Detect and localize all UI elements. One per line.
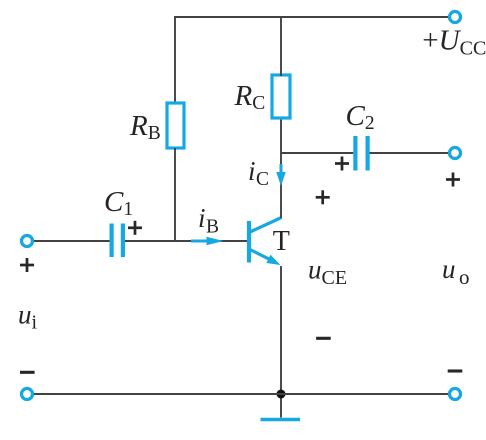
wire C1 to base: [125, 240, 247, 242]
label iB: [198, 203, 219, 238]
svg-text:iB: iB: [198, 203, 219, 238]
minus below uce: [316, 337, 331, 340]
plus after C1: [128, 221, 142, 235]
plus below output terminal: [446, 173, 460, 187]
label ui: [18, 300, 38, 334]
resistor RC: [272, 75, 290, 118]
svg-text:uo: uo: [442, 254, 470, 289]
input terminal bottom: [22, 389, 33, 400]
label iC: [248, 156, 269, 190]
svg-text:iC: iC: [248, 156, 269, 190]
capacitor C2: [355, 136, 367, 171]
capacitor C1: [112, 224, 123, 258]
svg-text:C1: C1: [104, 186, 133, 220]
power terminal +Ucc: [450, 12, 461, 23]
resistor RB: [167, 103, 184, 148]
svg-text:RC: RC: [234, 80, 266, 114]
transistor collector lead: [250, 218, 282, 233]
label T: [273, 226, 290, 257]
label C2: [346, 100, 375, 134]
output terminal bottom: [450, 389, 461, 400]
minus above bottom output terminal: [448, 369, 463, 372]
ground bar: [261, 418, 301, 422]
plus before C2: [335, 157, 349, 171]
wire RB branch upper: [174, 16, 176, 104]
wire collector vertical: [280, 118, 282, 218]
svg-text:ui: ui: [18, 300, 38, 334]
ground stem: [280, 394, 282, 418]
label C1: [104, 186, 133, 220]
svg-text:C2: C2: [346, 100, 375, 134]
wire C2 branch left: [281, 152, 353, 154]
input terminal top: [22, 236, 33, 247]
minus above bottom input terminal: [20, 371, 35, 374]
svg-text:T: T: [273, 226, 290, 257]
wire bottom rail: [32, 393, 450, 395]
label RC: [234, 80, 266, 114]
wire RB branch lower: [174, 148, 176, 242]
svg-text:+UCC: +UCC: [422, 25, 486, 60]
transistor T base bar: [247, 221, 251, 263]
junction dot: [277, 390, 286, 399]
label uo: [442, 254, 470, 289]
transistor emitter lead with arrow: [250, 250, 281, 266]
svg-text:RB: RB: [129, 110, 161, 144]
wire input to C1: [32, 240, 110, 242]
iB arrow: [191, 237, 224, 246]
plus under input terminal: [20, 258, 34, 272]
label +Ucc: [422, 25, 486, 60]
wire RC top: [280, 16, 282, 76]
iC arrow: [276, 164, 286, 186]
svg-text:uCE: uCE: [308, 255, 347, 290]
plus above uce: [316, 190, 330, 204]
wire top rail: [174, 16, 450, 18]
output terminal top: [450, 148, 461, 159]
wire C2 branch right: [370, 152, 450, 154]
label RB: [129, 110, 161, 144]
label uce: [308, 255, 347, 290]
wire emitter vertical: [280, 266, 282, 394]
